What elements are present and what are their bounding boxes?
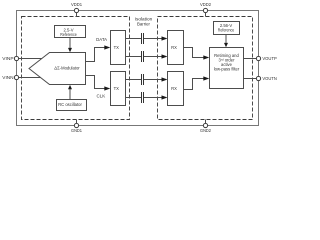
- svg-text:ΔΣ-Modulator: ΔΣ-Modulator: [54, 66, 80, 71]
- wire RX2 to filter: [184, 76, 210, 89]
- RX2 box: [168, 72, 184, 106]
- reference box 2.56-V (side 2): [214, 22, 240, 35]
- wire CLK: modulator to TX2: [86, 76, 111, 99]
- svg-text:RX: RX: [171, 45, 177, 50]
- outer package border: [17, 11, 259, 126]
- wire DATA: modulator to TX1: [86, 37, 111, 62]
- svg-text:VINP: VINP: [2, 56, 13, 61]
- capacitor C4: [142, 92, 144, 103]
- terminal VOUTN: [256, 76, 260, 80]
- wire VDD2 stub: [205, 13, 207, 17]
- reference box 2.5-V (side 1): [55, 26, 86, 38]
- wire VDD1 stub: [76, 13, 78, 17]
- wire VINP: [19, 58, 42, 60]
- delta-sigma modulator U1: [29, 53, 86, 85]
- terminal VOUTP: [256, 56, 260, 60]
- terminal VINN: [14, 75, 18, 79]
- wire RX1 to filter: [184, 48, 210, 60]
- svg-text:VOUTN: VOUTN: [262, 76, 276, 81]
- svg-text:Reference: Reference: [60, 32, 77, 37]
- svg-text:Barrier: Barrier: [137, 22, 151, 27]
- RX1 box: [168, 31, 184, 65]
- TX1 box: [111, 31, 126, 65]
- terminal VDD1: [74, 8, 78, 12]
- wire GND2 stub: [205, 120, 207, 124]
- wire reference2 to filter (arrow down): [224, 35, 228, 48]
- wire VOUTP: [244, 58, 257, 60]
- wire RC oscillator to modulator (arrow up): [68, 85, 72, 100]
- svg-text:TX: TX: [114, 86, 120, 91]
- TX2 box: [111, 72, 126, 106]
- wire reference1 to modulator (arrow down): [68, 38, 72, 53]
- svg-text:GND2: GND2: [200, 128, 211, 133]
- svg-text:VOUTP: VOUTP: [262, 56, 276, 61]
- terminal VINP: [14, 56, 18, 60]
- wire VINN: [19, 77, 41, 79]
- svg-text:RX: RX: [171, 86, 177, 91]
- svg-text:TX: TX: [114, 45, 120, 50]
- svg-text:CLK: CLK: [97, 94, 106, 99]
- svg-text:DATA: DATA: [96, 37, 107, 42]
- wire GND1 stub: [76, 120, 78, 124]
- svg-text:low-pass filter: low-pass filter: [214, 67, 240, 72]
- dashed box side 2: [158, 17, 253, 120]
- label Isolation Barrier: [135, 17, 153, 27]
- svg-text:VDD2: VDD2: [200, 2, 211, 7]
- terminal GND2: [203, 123, 207, 127]
- svg-text:RC oscillator: RC oscillator: [58, 102, 82, 107]
- dashed box side 1: [22, 17, 130, 120]
- capacitor C3: [142, 74, 144, 85]
- svg-text:Reference: Reference: [218, 28, 235, 33]
- terminal VDD2: [203, 8, 207, 12]
- svg-text:VDD1: VDD1: [71, 2, 82, 7]
- wire channel2 line2: [126, 95, 168, 99]
- capacitor C1: [142, 33, 144, 44]
- capacitor C2: [142, 51, 144, 62]
- filter block: retiming and 3rd order active low-pass filter: [210, 48, 244, 89]
- wire channel2 line1: [126, 77, 168, 81]
- svg-text:VINN: VINN: [2, 75, 13, 80]
- RC oscillator: [57, 100, 87, 111]
- wire channel1 line1: [126, 36, 168, 40]
- terminal GND1: [74, 123, 78, 127]
- svg-text:GND1: GND1: [71, 128, 82, 133]
- wire channel1 line2: [126, 54, 168, 58]
- wire VOUTN: [244, 78, 257, 80]
